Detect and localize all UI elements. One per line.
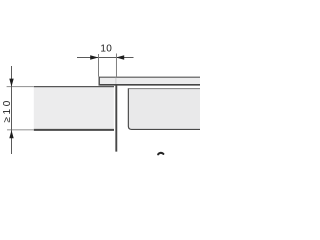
extension line left (x=98.4) [98, 54, 100, 77]
worktop panel fill (left) [34, 87, 114, 129]
glass bar bottom edge [99, 84, 202, 86]
dimension line (top, horizontal) [77, 57, 134, 59]
faint extension through bar [115, 78, 117, 85]
hob glass bar (top right) [99, 77, 201, 84]
worktop bottom extension (light, to dim line) [7, 129, 34, 131]
arrow down (tip on worktop top line) [9, 79, 13, 87]
arrow up (tip on worktop bottom line) [9, 130, 13, 138]
svg-text:10: 10 [100, 44, 112, 55]
hob body box fill [128, 89, 202, 129]
svg-text:≥10: ≥10 [2, 98, 13, 123]
extension line right upper (x=115.9) [115, 54, 117, 77]
arrow right (points left, tip at right extension line) [116, 55, 124, 59]
arrow left (points right, tip at left extension line) [90, 55, 98, 59]
worktop top edge (dark) [34, 86, 114, 88]
dimension line (left, vertical) [11, 66, 13, 154]
hob side wall line (x=116.3, below glass) [115, 85, 117, 151]
worktop bottom edge (dark) [34, 129, 114, 131]
small curved mark (bottom center-right) [158, 153, 163, 155]
worktop top extension (light, to dim line) [7, 86, 34, 88]
glass bar top edge [99, 76, 202, 78]
hob body box top edge (light) [129, 88, 202, 90]
hob body box left edge + rounded corner + bottom edge (dark) [128, 88, 202, 129]
glass bar left edge [98, 77, 100, 86]
